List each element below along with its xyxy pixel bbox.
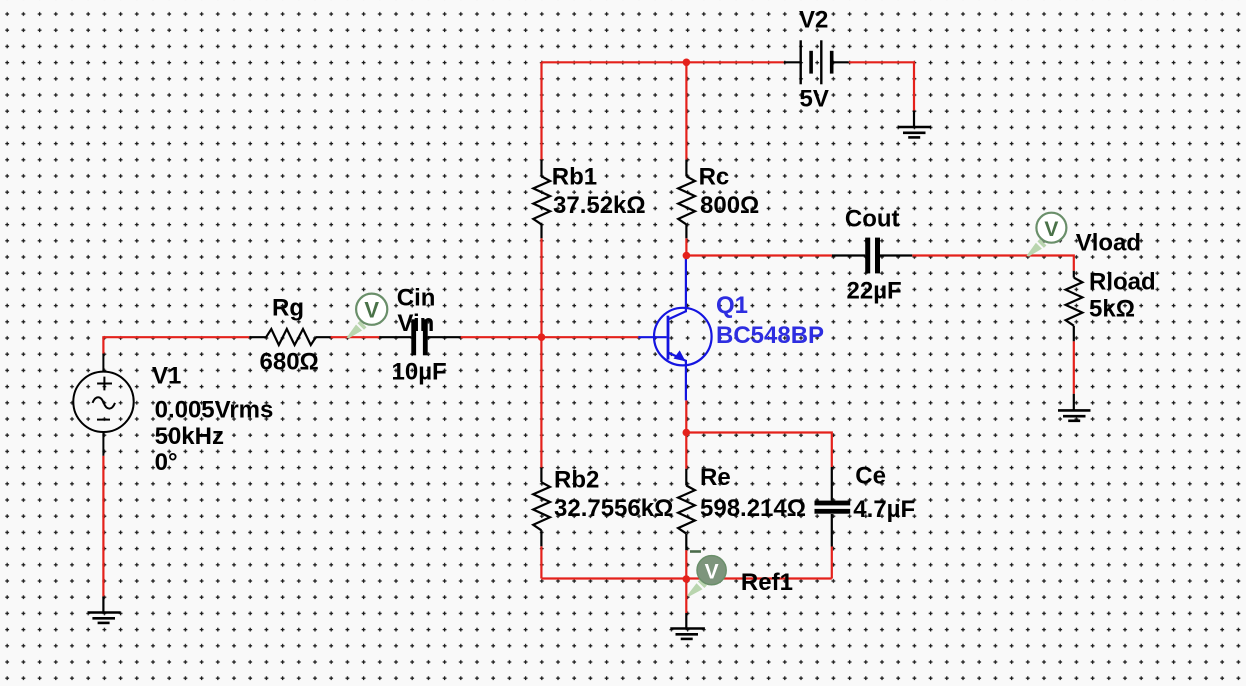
resistor Rload: [1066, 271, 1083, 342]
svg-text:Cout: Cout: [845, 206, 900, 233]
probe Ref1 (reference probe): [687, 556, 726, 597]
battery V2: [784, 40, 849, 84]
svg-text:598.214Ω: 598.214Ω: [700, 495, 806, 522]
svg-text:Re: Re: [700, 464, 731, 491]
svg-text:Rload: Rload: [1089, 269, 1156, 296]
resistor Rb1: [533, 160, 550, 239]
resistor Rc: [678, 160, 695, 239]
AC source V1: [73, 354, 133, 456]
junction top rail / Rc: [683, 59, 691, 67]
svg-text:Rc: Rc: [699, 164, 730, 191]
ground under V2: [898, 111, 931, 138]
wire V1 top to Rg (node Vg): [103, 337, 638, 353]
svg-text:V: V: [1044, 218, 1058, 241]
capacitor Cout: [832, 238, 912, 274]
junction Re bottom / bottom rail: [683, 575, 691, 583]
svg-text:V: V: [705, 560, 719, 583]
svg-text:Rb2: Rb2: [554, 467, 599, 494]
wire Rb1 branch: [540, 62, 542, 337]
svg-text:800Ω: 800Ω: [700, 192, 759, 219]
svg-text:V2: V2: [799, 7, 828, 34]
svg-text:Rb1: Rb1: [552, 164, 597, 191]
svg-text:Vload: Vload: [1076, 229, 1141, 256]
svg-text:V1: V1: [152, 363, 181, 390]
ground under Re (Ref1 node): [670, 613, 705, 639]
wire Rb2 branch: [540, 337, 542, 578]
svg-text:5kΩ: 5kΩ: [1089, 296, 1135, 323]
capacitor Ce: [815, 467, 851, 547]
capacitor Cin: [379, 319, 460, 355]
wire Rc branch: [685, 62, 687, 255]
junction Vin / Rb1: [538, 333, 546, 341]
wire output line to Cout and Rload: [686, 256, 1073, 271]
svg-text:Q1: Q1: [716, 292, 748, 319]
svg-text:37.52kΩ: 37.52kΩ: [553, 192, 646, 219]
svg-text:32.7556kΩ: 32.7556kΩ: [554, 495, 673, 522]
wire emitter node to Re and Ce: [686, 400, 832, 468]
wire bottom rail: [541, 547, 831, 579]
svg-text:Cin: Cin: [397, 285, 436, 312]
svg-text:50kHz: 50kHz: [155, 423, 224, 450]
probe Vin (voltage probe): [347, 294, 388, 339]
wire V1 bottom to ground: [102, 456, 104, 597]
svg-text:Vin: Vin: [397, 310, 434, 337]
ground under V1: [88, 596, 121, 623]
svg-text:5V: 5V: [800, 86, 829, 113]
svg-text:10µF: 10µF: [392, 359, 447, 386]
resistor Rb2: [533, 468, 550, 547]
transistor Q1 BC548BP: [638, 257, 711, 401]
svg-text:22µF: 22µF: [847, 278, 902, 305]
svg-text:Ce: Ce: [855, 462, 886, 489]
wire Rload bottom to ground: [1073, 341, 1075, 394]
svg-text:V: V: [364, 298, 379, 323]
wire top rail to V2 and ground: [542, 62, 915, 110]
probe Vload (voltage probe): [1027, 213, 1067, 257]
svg-text:680Ω: 680Ω: [260, 349, 319, 376]
svg-text:Rg: Rg: [272, 295, 304, 322]
svg-text:0°: 0°: [155, 449, 178, 476]
svg-text:0.005Vrms: 0.005Vrms: [155, 397, 274, 424]
svg-text:BC548BP: BC548BP: [716, 322, 824, 349]
svg-text:Ref1: Ref1: [741, 569, 793, 596]
junction collector / Cout: [683, 252, 691, 260]
junction emitter / Ce: [683, 429, 691, 437]
ground under Rload: [1058, 394, 1091, 421]
probe minus mark: [690, 550, 701, 553]
resistor Re: [678, 469, 695, 550]
svg-text:4.7µF: 4.7µF: [853, 496, 915, 523]
wire Re bottom to ground node Ref1: [685, 550, 687, 613]
resistor Rg: [249, 329, 330, 345]
